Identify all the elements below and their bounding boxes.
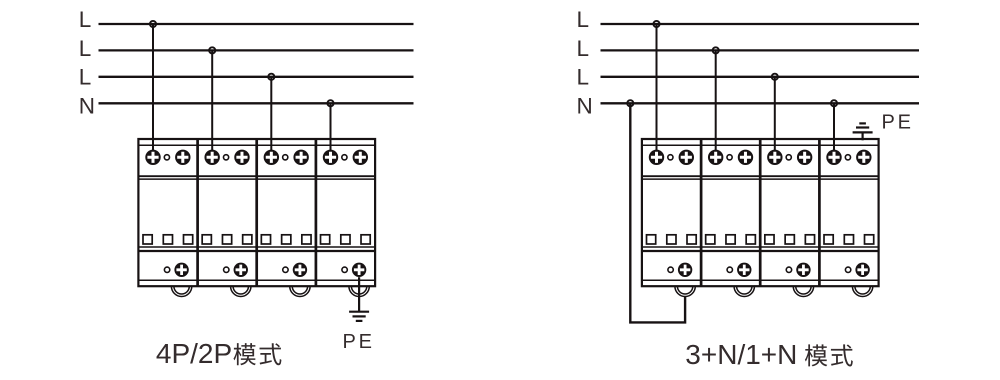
junction node on L1 (left) xyxy=(150,21,156,27)
svg-text:4P/2P: 4P/2P xyxy=(156,338,232,369)
SPD module 3 (left): terminals, screws, indicator squares, DIN clip xyxy=(261,150,311,297)
wire: tap from L2 (right) down to module terminal xyxy=(715,50,717,151)
junction node on L3 (right) xyxy=(772,74,778,80)
SPD module 2 (right): terminals, screws, indicator squares, DIN clip xyxy=(706,150,756,297)
svg-text:L: L xyxy=(577,65,590,90)
junction node on N (left) xyxy=(327,100,333,106)
wire: tap from L2 (left) down to module terminal xyxy=(211,50,213,151)
svg-text:N: N xyxy=(577,93,593,118)
module divider lines (left) xyxy=(198,139,316,286)
junction node on L2 (right) xyxy=(713,47,719,53)
wire: neutral line N (right) xyxy=(601,102,920,104)
caption: 3+N/1+N mode (right) xyxy=(685,339,853,370)
ground symbol (right PE earth, inverted, above module 4) xyxy=(853,123,873,140)
SPD module 1 (left): terminals, screws, indicator squares, DIN clip xyxy=(143,150,193,297)
wire: phase line L3 (left) xyxy=(99,76,414,78)
svg-text:L: L xyxy=(79,65,92,90)
SPD module 3 (right): terminals, screws, indicator squares, DIN clip xyxy=(765,150,815,297)
wire: tap from L1 (left) down to module terminal xyxy=(152,24,154,151)
SPD device outline (right) xyxy=(642,139,879,286)
ground symbol (left PE earth) xyxy=(349,312,369,321)
module divider lines (right) xyxy=(701,139,819,286)
wire: tap from N (left) down to module terminal xyxy=(330,103,332,151)
wire: N conductor loop from N line down and around to module 1 bottom terminal (right) xyxy=(630,103,685,322)
wire: tap from L3 (left) down to module terminal xyxy=(270,77,272,151)
wire: PE conductor from module 4 bottom terminal (left) xyxy=(358,277,360,312)
wire: neutral line N (left) xyxy=(99,102,414,104)
svg-text:3+N/1+N: 3+N/1+N xyxy=(685,339,797,370)
svg-text:PE: PE xyxy=(882,111,914,133)
svg-text:L: L xyxy=(79,36,92,61)
junction node on L3 (left) xyxy=(268,74,274,80)
wire: phase line L1 (left) xyxy=(99,23,414,25)
svg-text:N: N xyxy=(79,93,95,118)
wire: phase line L1 (right) xyxy=(601,23,920,25)
junction node on N (right) xyxy=(831,100,837,106)
device internal horizontal panel lines (right) xyxy=(642,145,879,280)
SPD module 4 (right): terminals, screws, indicator squares, DIN clip xyxy=(824,150,874,297)
svg-text:PE: PE xyxy=(343,331,375,353)
wire: phase line L3 (right) xyxy=(601,76,920,78)
junction node on L1 (right) xyxy=(653,21,659,27)
junction node on N line (right, loop) xyxy=(627,100,633,106)
SPD module 1 (right): terminals, screws, indicator squares, DIN clip xyxy=(647,150,697,297)
wire: phase line L2 (left) xyxy=(99,49,414,51)
wire: phase line L2 (right) xyxy=(601,49,920,51)
junction node on L2 (left) xyxy=(209,47,215,53)
wire: tap from N (right) down to module terminal xyxy=(833,103,835,151)
wire: tap from L3 (right) down to module terminal xyxy=(774,77,776,151)
SPD module 2 (left): terminals, screws, indicator squares, DIN clip xyxy=(202,150,252,297)
svg-text:L: L xyxy=(79,7,92,32)
SPD device outline (left) xyxy=(138,139,375,286)
wire: tap from L1 (right) down to module terminal xyxy=(656,24,658,151)
caption: 4P/2P mode (left) xyxy=(156,338,282,369)
svg-text:L: L xyxy=(577,36,590,61)
SPD module 4 (left): terminals, screws, indicator squares, DIN clip xyxy=(321,150,371,297)
device internal horizontal panel lines (left) xyxy=(138,145,375,280)
svg-text:L: L xyxy=(577,7,590,32)
